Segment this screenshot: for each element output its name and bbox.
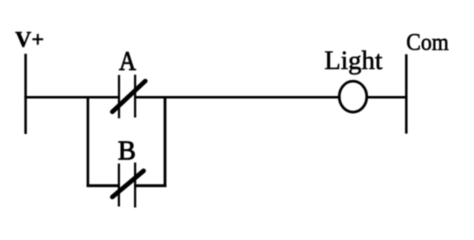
contact B (normally closed) (112, 163, 143, 208)
svg-text:Com: Com (406, 30, 449, 56)
svg-text:V+: V+ (15, 28, 44, 52)
svg-text:Light: Light (324, 45, 383, 75)
coil Light (339, 81, 367, 112)
wire: rung from left rail to contact A (24, 96, 118, 99)
contact A (normally closed) (112, 75, 145, 119)
svg-text:A: A (119, 46, 136, 76)
wire: branch bottom right segment (135, 184, 166, 187)
wire: rung from contact A to coil (135, 96, 339, 99)
wire: branch bottom left segment (87, 184, 119, 187)
right power rail (Com) (405, 54, 408, 133)
wire: rung from coil to right rail (367, 96, 407, 99)
wire: branch right drop (164, 96, 167, 187)
wire: branch left drop (87, 96, 90, 187)
left power rail (24, 54, 27, 134)
svg-text:B: B (118, 136, 136, 166)
